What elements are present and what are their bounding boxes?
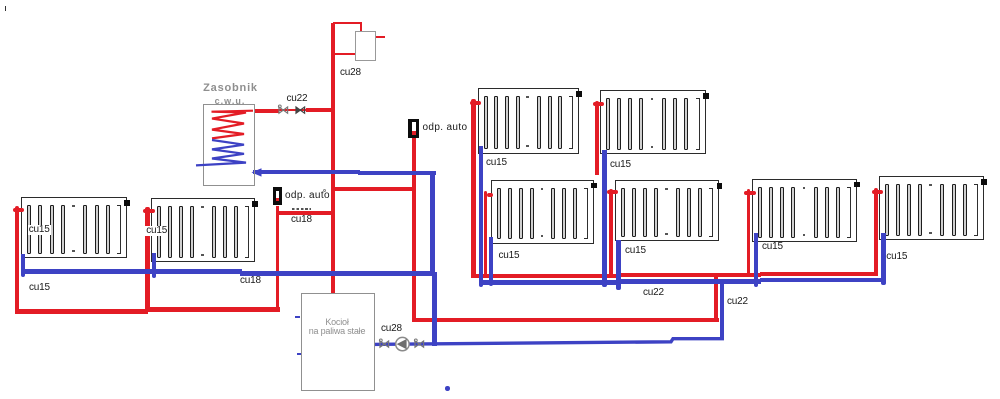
boiler left stub (blue) upper — [295, 316, 300, 318]
label cu15 — [145, 226, 168, 236]
wire blue return main, right group, seg 1 (cu22) — [479, 280, 620, 284]
pipe red supply main, left group, seg 2 — [146, 307, 280, 312]
radiator valve T R6 — [607, 190, 618, 194]
valve cu22 line valve 1 — [277, 104, 290, 116]
label odp. auto — [285, 191, 330, 201]
pipe red riser radiator R4 — [595, 101, 599, 176]
top-left tick mark — [5, 6, 7, 11]
radiator R2 (panel, cu15 circuit) — [151, 198, 255, 262]
wire blue drop radiator R1 — [21, 254, 25, 277]
radiator R7 (panel, cu15 circuit) — [752, 179, 857, 243]
pipe red supply horizontal y=320 (cu22) — [412, 318, 719, 322]
label cu15 — [499, 251, 520, 261]
pipe red thin: riser to vessel left side — [335, 53, 356, 55]
label cu15 — [486, 158, 507, 168]
label cu28 — [340, 68, 361, 78]
pipe red riser radiator R5 — [484, 191, 488, 276]
automatic air vent 1 (odp. auto) — [408, 119, 419, 139]
pipe red cu22: tank to valves (thick) — [255, 109, 279, 113]
radiator R1 (panel, cu15 circuit) — [21, 197, 127, 258]
label Kociol na paliwa stale — [301, 317, 373, 327]
pipe red branch to right group, y=188 — [335, 187, 416, 191]
pipe red supply main, left group, seg 1 — [15, 309, 148, 314]
pipe red branch cu18 to left group, y=213 — [277, 211, 335, 215]
label cu15 — [886, 252, 907, 262]
pipe red supply main, right group, seg 1 — [471, 274, 621, 278]
circulation pump — [394, 336, 412, 353]
pipe red riser radiator R7 — [747, 189, 751, 277]
label cu22 — [727, 297, 748, 307]
boiler left stub (blue) lower — [297, 353, 302, 355]
wire blue drop radiator R6 — [616, 240, 620, 290]
radiator R6 (panel, cu15 circuit) — [615, 180, 719, 241]
radiator R8 (panel, cu15 circuit) — [879, 176, 984, 240]
pipe red thin: vessel right stub — [374, 36, 385, 38]
label cu22 — [643, 288, 664, 298]
radiator valve T R2 — [143, 209, 155, 213]
radiator valve T R7 — [744, 191, 756, 195]
wire blue vertical x=433 upper: tank return down — [430, 171, 435, 275]
wire blue return main, right group, seg 2 — [620, 279, 761, 283]
pipe red riser radiator R1 — [15, 206, 19, 313]
wire blue bottom return: boiler/pump to riser x=722 — [370, 330, 730, 350]
wire blue return: tank to x=360, y=172 — [253, 170, 360, 174]
pipe red riser radiator R6 — [609, 189, 613, 277]
wire blue return main, left group, seg 2 — [240, 271, 434, 276]
pipe red thin: down to expansion vessel top — [360, 22, 362, 32]
tank heating coil (red/blue zigzag) — [194, 105, 266, 180]
pipe red cu22: thin between valves — [277, 109, 307, 111]
pipe red riser radiator R3 — [471, 99, 475, 276]
boiler Kociol na paliwa stale — [301, 293, 375, 391]
pipe red supply main, right group, seg 2 — [620, 273, 761, 277]
radiator valve T R1 — [13, 208, 25, 212]
label odp. auto — [423, 123, 468, 133]
radiator valve T R4 — [593, 102, 604, 106]
gray dashes under vent 2 — [292, 208, 312, 210]
pipe red riser under air vent 2, x=277.5 — [276, 206, 280, 312]
label cu15 — [29, 283, 50, 293]
radiator R5 (panel, cu15 circuit) — [491, 180, 594, 244]
wire blue return: x=358 to x=433 — [358, 171, 436, 175]
pipe red vertical up x=716 (cu22) — [714, 274, 718, 323]
automatic air vent 2 (odp. auto) — [273, 187, 282, 205]
pipe red main riser cu28, x=333 — [331, 23, 336, 294]
stray blue dot — [445, 386, 450, 390]
wire blue drop radiator R8 — [881, 233, 886, 285]
pipe red thin: riser top horizontal to vessel — [333, 22, 362, 24]
wire blue return main, left group, seg 1 — [21, 269, 242, 274]
pipe red riser radiator R8 — [874, 188, 878, 276]
label cu28 — [381, 324, 402, 334]
wire blue vertical x=722 (cu22) — [720, 279, 724, 340]
valve pump outlet valve — [413, 338, 426, 350]
pipe red supply main, right group, seg 3 — [760, 272, 877, 276]
valve cu22 line valve 2 — [294, 104, 307, 116]
wire blue drop radiator R5 — [489, 237, 493, 287]
expansion vessel — [355, 31, 376, 61]
pipe red riser under air vent 1, x=413 — [412, 133, 416, 322]
wire blue vertical x=433 lower: to bottom return — [432, 272, 437, 346]
radiator valve T R5 — [487, 193, 493, 197]
label cu15 — [610, 160, 631, 170]
label cu22 — [287, 94, 308, 104]
wire blue drop radiator R4 — [602, 150, 606, 287]
pipe red cu22: valves to main riser (thick) — [306, 108, 332, 112]
wire blue drop radiator R7 — [754, 233, 759, 287]
label Zasobnik c.w.u. — [201, 83, 260, 93]
hot water tank Zasobnik c.w.u. — [203, 104, 255, 186]
wire blue drop radiator R2 — [152, 253, 156, 278]
radiator valve T R3 — [470, 101, 481, 105]
small gray circle on branch near main riser — [323, 189, 327, 193]
radiator valve T R8 — [872, 190, 883, 194]
radiator R4 (panel, cu15 circuit) — [600, 90, 706, 154]
label cu15 — [762, 242, 783, 252]
arrowhead into tank (blue return) — [250, 167, 263, 178]
pipe red riser radiator R2 — [145, 207, 150, 311]
label cu15 — [28, 225, 51, 235]
wire blue return main, right group, seg 3 — [760, 278, 886, 282]
radiator R3 (panel, cu15 circuit) — [478, 88, 579, 154]
valve pump inlet valve — [378, 338, 391, 350]
label cu18 — [291, 215, 312, 225]
wire blue drop radiator R3 — [479, 146, 483, 287]
label cu18 — [240, 276, 261, 286]
label cu15 — [625, 246, 646, 256]
